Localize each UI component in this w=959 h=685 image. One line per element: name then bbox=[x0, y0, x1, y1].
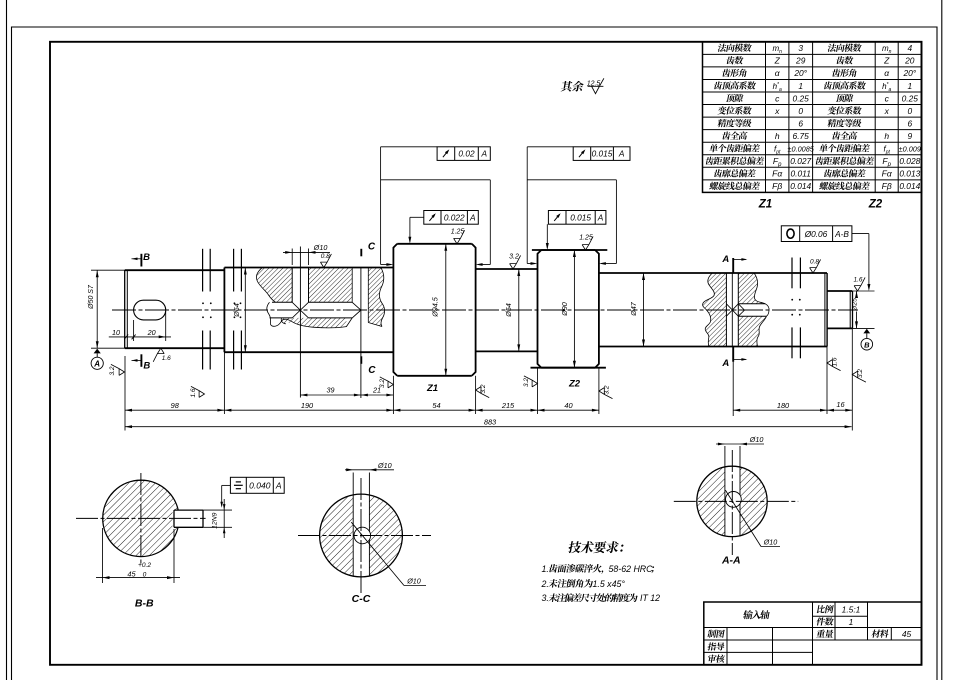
svg-text:6: 6 bbox=[798, 118, 803, 128]
roughness 3.2 at end face (rotated) bbox=[852, 371, 866, 382]
svg-text:1.6: 1.6 bbox=[853, 277, 862, 284]
svg-text:B: B bbox=[864, 340, 870, 349]
svg-text:215: 215 bbox=[501, 401, 515, 410]
svg-text:±0.0085: ±0.0085 bbox=[788, 145, 815, 154]
axial hole rounded end (wavy bulge) bbox=[765, 304, 769, 316]
svg-text:Fα: Fα bbox=[882, 169, 893, 179]
svg-text:6: 6 bbox=[907, 118, 912, 128]
dimension Ø90 bbox=[573, 250, 575, 368]
dimension 180 bbox=[733, 409, 827, 411]
svg-text:1.25: 1.25 bbox=[451, 228, 465, 235]
svg-text:29: 29 bbox=[795, 56, 806, 66]
svg-text:45: 45 bbox=[127, 569, 136, 578]
broken-out bottom boundary (wavy) bbox=[276, 318, 352, 328]
title block text bbox=[743, 610, 771, 619]
gear table text bbox=[717, 44, 752, 52]
tolerance frame runout 0.015 A (Z2 OD) bbox=[548, 211, 606, 225]
svg-text:883: 883 bbox=[484, 417, 497, 426]
svg-text:A-A: A-A bbox=[721, 555, 741, 567]
section C-C centerlines bbox=[298, 535, 431, 537]
svg-text:c: c bbox=[775, 93, 780, 103]
leader symmetry to keyway dim bbox=[222, 484, 231, 486]
svg-text:54: 54 bbox=[432, 401, 440, 410]
svg-text:Ø10: Ø10 bbox=[763, 538, 778, 547]
extension lines for length dimensions bbox=[124, 356, 126, 431]
step face Ø47/Ø25 with chamfer bbox=[826, 273, 828, 347]
dimension Ø47 bbox=[643, 273, 645, 347]
cross-drilled oil hole Ø10 walls bbox=[291, 268, 293, 303]
svg-text:Z2: Z2 bbox=[568, 379, 581, 390]
svg-text:1: 1 bbox=[798, 81, 803, 91]
svg-text:10: 10 bbox=[112, 328, 120, 337]
svg-text:Ø10: Ø10 bbox=[377, 461, 392, 470]
svg-text:3.2: 3.2 bbox=[109, 366, 116, 375]
extension lines at Ø25 for datum/leader bbox=[852, 290, 874, 292]
svg-text:20°: 20° bbox=[793, 68, 807, 78]
dimension Ø10 (A-A top) bbox=[716, 443, 764, 445]
svg-text:0.02: 0.02 bbox=[458, 149, 475, 159]
datum B symbol bbox=[863, 329, 870, 334]
title block grid bbox=[704, 602, 922, 665]
svg-text:0: 0 bbox=[143, 571, 147, 578]
svg-text:A: A bbox=[618, 149, 625, 159]
bearing rollers left pair 1 bbox=[202, 249, 204, 292]
roughness 3.2 on left end face (rotated) bbox=[111, 364, 125, 375]
svg-text:A: A bbox=[721, 254, 729, 265]
svg-text:20: 20 bbox=[147, 328, 156, 337]
dimension 883 overall bbox=[125, 426, 852, 428]
svg-text:h: h bbox=[884, 131, 889, 141]
leader rectangle Z1 face runout bbox=[381, 146, 438, 148]
svg-text:Ø94.5: Ø94.5 bbox=[431, 296, 440, 318]
svg-text:Fα: Fα bbox=[772, 169, 783, 179]
svg-text:c: c bbox=[885, 93, 890, 103]
section C-C axial hole circle bbox=[354, 527, 371, 544]
svg-text:Z2: Z2 bbox=[868, 199, 883, 211]
svg-text:0: 0 bbox=[798, 106, 803, 116]
section A-A hole slot walls bbox=[724, 446, 726, 537]
svg-text:Ø64: Ø64 bbox=[232, 303, 241, 318]
svg-text:0.011: 0.011 bbox=[791, 169, 811, 179]
shaft Ø25 end section bbox=[827, 290, 852, 292]
axial hole walls (right) bbox=[738, 303, 765, 305]
svg-text:+0.2: +0.2 bbox=[138, 562, 151, 569]
svg-text:1.6: 1.6 bbox=[190, 388, 197, 397]
hatch right-upper of A-A hole bbox=[738, 273, 765, 304]
svg-text:Fβ: Fβ bbox=[772, 181, 782, 191]
bearing roller center dots right bbox=[791, 299, 793, 301]
svg-text:1: 1 bbox=[907, 81, 912, 91]
roughness 3.2 right of Z2 (rotated) bbox=[599, 388, 613, 399]
svg-text:3: 3 bbox=[798, 43, 803, 53]
leader Ø10 (A-A small circle) bbox=[725, 490, 761, 546]
dimension 215 bbox=[476, 409, 538, 411]
svg-text:3.2: 3.2 bbox=[509, 254, 519, 261]
svg-text:0.015: 0.015 bbox=[570, 212, 591, 222]
small arc detail at hole corner bbox=[281, 318, 286, 324]
dimension 39 bbox=[300, 394, 361, 396]
svg-text:58-62 HRC: 58-62 HRC bbox=[609, 564, 654, 574]
broken-out section boundary left (wavy) bbox=[256, 268, 275, 303]
cutting plane A-A bottom bbox=[732, 347, 734, 362]
dimension Ø10 (C-C top) bbox=[345, 469, 394, 471]
gear parameter table grid bbox=[703, 42, 922, 193]
dimension Ø94.5 bbox=[445, 244, 447, 376]
svg-text:12N9: 12N9 bbox=[212, 512, 219, 528]
dimension 12N9 bbox=[203, 509, 232, 511]
dimension 21 bbox=[361, 394, 394, 396]
svg-text:x: x bbox=[884, 106, 890, 116]
svg-text:3.2: 3.2 bbox=[480, 384, 487, 393]
shaft Ø64 bottom edge bbox=[224, 351, 393, 353]
svg-text:190: 190 bbox=[301, 401, 314, 410]
section B-B centerlines bbox=[76, 517, 206, 519]
svg-text:20°: 20° bbox=[902, 68, 916, 78]
shaft Ø47 bottom edge bbox=[599, 346, 827, 348]
svg-text:B: B bbox=[143, 361, 150, 372]
tolerance frame circular 0.06 A-B (Ø25) bbox=[781, 226, 852, 242]
tolerance frame runout 0.022 A (Z1 OD) bbox=[424, 211, 479, 225]
roughness 1.6 under Ø50 keyway bbox=[153, 348, 164, 362]
hole intersection cross bbox=[292, 302, 308, 318]
leader Z1 OD runout bbox=[410, 216, 424, 218]
step face Ø50/Ø64 bbox=[223, 268, 225, 353]
svg-text:1.6: 1.6 bbox=[832, 357, 839, 366]
svg-text:1.25: 1.25 bbox=[579, 235, 593, 242]
leader A-B runout to Ø25 bbox=[852, 233, 869, 235]
svg-text:A: A bbox=[597, 212, 604, 222]
svg-text:Z1: Z1 bbox=[426, 383, 438, 394]
svg-text:Z1: Z1 bbox=[758, 199, 772, 211]
svg-text:Ø50 S7: Ø50 S7 bbox=[88, 284, 95, 310]
svg-text:3.: 3. bbox=[542, 593, 549, 603]
svg-text:x: x bbox=[774, 106, 780, 116]
shaft left end face Ø50 section bbox=[124, 270, 126, 348]
svg-text:180: 180 bbox=[777, 401, 790, 410]
dimension Ø25 bbox=[856, 291, 858, 297]
dimension Ø54 (between gears) bbox=[518, 269, 520, 351]
A-A hole centerline bbox=[731, 273, 733, 347]
hatch region right of cross hole above axial hole bbox=[309, 268, 353, 303]
roughness 3.2 between gears bbox=[510, 255, 521, 269]
svg-text:A: A bbox=[275, 480, 282, 490]
hatch patch right of drill point (wavy) bbox=[368, 268, 384, 327]
svg-text:Ø10: Ø10 bbox=[406, 576, 421, 585]
svg-text:0.015: 0.015 bbox=[592, 149, 613, 159]
tolerance frame runout 0.02 A (Z1 faces) bbox=[437, 147, 490, 161]
svg-text:3.2: 3.2 bbox=[857, 369, 864, 378]
roughness 1.25 on Z2 OD bbox=[582, 236, 593, 250]
svg-text:B: B bbox=[143, 252, 150, 263]
section C-C hole slot walls bbox=[352, 473, 354, 577]
svg-text:9: 9 bbox=[907, 131, 912, 141]
broken-out boundary left (wavy) on Ø47 bbox=[703, 273, 715, 347]
section B-B keyway slot bbox=[173, 510, 204, 527]
axial oil hole Ø10 walls bbox=[272, 301, 292, 303]
gear Z1 body Ø94.5 bbox=[397, 243, 472, 245]
roughness 1.6 near 98 dim (rotated) bbox=[191, 386, 205, 397]
svg-text:16: 16 bbox=[836, 400, 845, 409]
technical requirements title bbox=[568, 541, 625, 553]
dimension Ø50 S7 with extension lines bbox=[91, 269, 125, 271]
svg-text:0.027: 0.027 bbox=[790, 156, 811, 166]
svg-text:h: h bbox=[775, 131, 780, 141]
shaft Ø50 top edge bbox=[125, 269, 225, 271]
roughness 1.25 on Z1 OD bbox=[454, 230, 465, 244]
svg-text:0.8: 0.8 bbox=[810, 259, 819, 266]
roughness 0.8 on right journal bbox=[810, 259, 821, 273]
dimension keyway 10 and 20 bbox=[133, 320, 135, 341]
bearing roller center dots left bbox=[202, 302, 204, 304]
svg-text:6.75: 6.75 bbox=[793, 131, 810, 141]
leader Ø10 (C-C small circle) bbox=[351, 522, 404, 585]
svg-text:Ø10: Ø10 bbox=[313, 243, 328, 252]
gear Z2 body Ø90 bbox=[532, 249, 607, 251]
svg-text:Ø54: Ø54 bbox=[504, 303, 513, 318]
bearing rollers right pair bbox=[791, 258, 793, 289]
extension line drill point bbox=[360, 268, 362, 398]
section A-A centerlines bbox=[674, 500, 798, 502]
svg-text:0.013: 0.013 bbox=[899, 169, 920, 179]
sheet edge left bbox=[6, 0, 8, 680]
svg-text:12.5: 12.5 bbox=[587, 80, 601, 87]
dimension Ø64 (mid section) bbox=[244, 268, 246, 353]
svg-text:IT 12: IT 12 bbox=[640, 593, 660, 603]
drill point cone bbox=[352, 302, 361, 318]
svg-text:20: 20 bbox=[904, 56, 915, 66]
svg-text:Ø90: Ø90 bbox=[560, 302, 569, 317]
tolerance frame runout 0.015 A (Z2 faces) bbox=[573, 147, 630, 161]
svg-text:Z: Z bbox=[883, 56, 890, 66]
dimension 190 bbox=[224, 409, 393, 411]
svg-text:1: 1 bbox=[849, 617, 854, 627]
cutting plane C-C top bbox=[360, 249, 362, 256]
dimension 40 bbox=[538, 409, 599, 411]
svg-text:0.25: 0.25 bbox=[902, 93, 919, 103]
svg-text:1.5:1: 1.5:1 bbox=[842, 605, 861, 615]
roughness 3.2 right of Z1 (rotated) bbox=[476, 387, 490, 398]
roughness 3.2 left of Z1 (rotated) bbox=[380, 377, 394, 388]
roughness 1.6 on Ø25 bbox=[854, 277, 865, 291]
svg-text:2.: 2. bbox=[541, 579, 549, 589]
svg-text:Ø25: Ø25 bbox=[852, 298, 859, 312]
leader Z2 OD runout bbox=[546, 224, 548, 248]
svg-text:0: 0 bbox=[907, 106, 912, 116]
svg-text:0.25: 0.25 bbox=[793, 93, 810, 103]
dimension 98 bbox=[125, 409, 224, 411]
svg-text:0.028: 0.028 bbox=[899, 156, 920, 166]
section A-A axial hole circle bbox=[726, 492, 742, 508]
dimension 16 bbox=[827, 409, 852, 411]
vertical line at drill full-depth bbox=[351, 268, 353, 303]
svg-text:3.2: 3.2 bbox=[603, 385, 610, 394]
svg-text:A: A bbox=[721, 358, 729, 369]
svg-text:A: A bbox=[469, 212, 476, 222]
svg-text:C: C bbox=[368, 242, 376, 253]
svg-text:1.: 1. bbox=[542, 564, 549, 574]
cutting plane C-C bottom bbox=[360, 356, 362, 364]
svg-text:1.5 x45°: 1.5 x45° bbox=[593, 579, 626, 589]
vertical hole Ø10 walls (A-A) bbox=[725, 273, 727, 347]
leader rectangle Z2 face runout bbox=[527, 146, 573, 148]
hatch left of A-A hole bbox=[703, 273, 727, 347]
svg-text:40: 40 bbox=[564, 401, 573, 410]
broken-out boundary right (wavy) on Ø47 bbox=[754, 273, 766, 347]
hatch region left of cross hole bbox=[256, 268, 292, 303]
svg-text:4: 4 bbox=[907, 43, 912, 53]
svg-text:45: 45 bbox=[902, 629, 912, 639]
shaft centerline bbox=[112, 309, 858, 311]
hole cross + entry cone bbox=[726, 304, 738, 316]
svg-text:3.2: 3.2 bbox=[523, 378, 530, 387]
symmetry tolerance frame 0.040 A bbox=[230, 477, 284, 493]
svg-text:39: 39 bbox=[327, 386, 335, 395]
svg-text:0.014: 0.014 bbox=[790, 181, 811, 191]
svg-text:Ø10: Ø10 bbox=[749, 435, 764, 444]
note: other surfaces roughness 12.5 bbox=[561, 81, 585, 92]
cutting plane B-B bottom bbox=[140, 354, 142, 367]
svg-text:Z: Z bbox=[774, 56, 781, 66]
sheet edge right bbox=[941, 0, 943, 680]
svg-text:B-B: B-B bbox=[135, 598, 154, 610]
svg-text:A: A bbox=[481, 149, 488, 159]
svg-text:A: A bbox=[93, 360, 100, 369]
roughness 3.2 left of Z2 (rotated) bbox=[524, 376, 538, 387]
svg-text:0.040: 0.040 bbox=[249, 480, 271, 490]
cutting plane B-B top bbox=[140, 254, 142, 267]
shaft Ø54 between gears bbox=[476, 268, 538, 270]
svg-text:Fβ: Fβ bbox=[882, 181, 892, 191]
svg-text:1.6: 1.6 bbox=[162, 355, 171, 362]
svg-text:Ø47: Ø47 bbox=[629, 301, 638, 317]
cutting plane A-A top bbox=[732, 258, 734, 273]
datum A symbol bbox=[94, 349, 101, 354]
dimension 54 bbox=[393, 409, 475, 411]
svg-text:C: C bbox=[368, 365, 376, 376]
svg-text:0.022: 0.022 bbox=[444, 212, 465, 222]
roughness 1.6 right journal end (rotated) bbox=[827, 360, 841, 371]
svg-text:C-C: C-C bbox=[352, 593, 371, 605]
svg-text:0.014: 0.014 bbox=[899, 181, 920, 191]
svg-text:98: 98 bbox=[171, 401, 180, 410]
svg-text:21: 21 bbox=[372, 386, 381, 395]
bearing rollers left pair 2 bbox=[233, 249, 235, 292]
svg-text:±0.009: ±0.009 bbox=[899, 145, 921, 154]
shaft Ø50 bottom edge bbox=[125, 347, 225, 349]
dimension Ø10 cross hole bbox=[291, 249, 293, 266]
svg-text:Ø0.06: Ø0.06 bbox=[804, 229, 828, 239]
svg-text:0.8: 0.8 bbox=[321, 253, 330, 260]
hatch right-lower of A-A hole bbox=[738, 316, 766, 346]
dimension 45 +0.2/0 bbox=[102, 528, 104, 583]
shaft Ø47 top edge bbox=[599, 272, 827, 274]
hatch region below axial hole bbox=[292, 318, 346, 328]
shaft Ø64 top edge bbox=[224, 267, 393, 269]
cross hole centerline bbox=[299, 247, 301, 398]
keyway on Ø50 (plan view) bbox=[134, 300, 166, 320]
svg-text:A-B: A-B bbox=[834, 229, 849, 239]
roughness 0.8 on Ø64 top bbox=[320, 254, 331, 268]
